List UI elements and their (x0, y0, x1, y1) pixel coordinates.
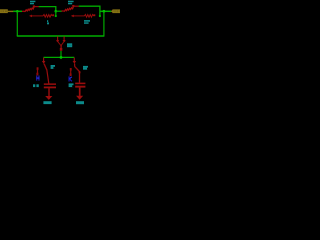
label R2 (teal text above) (68, 1, 74, 5)
node B junction (55, 10, 58, 13)
diode D1 (arrow down, left branch) (42, 58, 47, 70)
label C1 (teal text) (33, 84, 39, 87)
wire: long bottom rail (17, 35, 105, 37)
ground label (teal text) left (43, 101, 51, 104)
polarity marker (blue glyph) right (69, 76, 72, 81)
wire: node B stub right to R2 (56, 10, 62, 12)
capacitor C1 (plates) (44, 83, 56, 88)
resistor R2 (diagonal zigzag) (62, 5, 80, 11)
ground (arrow down) left (45, 96, 52, 100)
wire: R2 to node C (79, 6, 101, 17)
wire: node C down to bottom rail (103, 11, 105, 36)
label Q1 (teal text) (67, 43, 72, 47)
wire: Q1 down to node D (60, 51, 62, 57)
port VIN (left olive input port) (0, 9, 14, 13)
wire segment: D2 to C2 (red lead) (79, 71, 81, 83)
resistor R3 (horizontal, arrow at left) (29, 14, 54, 17)
wire: node B stub down to R3 (55, 11, 57, 17)
wire: node A down to bottom rail (16, 11, 18, 36)
port VOUT (right olive output port) (111, 9, 120, 13)
node A junction (16, 10, 19, 13)
wire: middle horizontal net (44, 56, 75, 58)
transistor Q1 (pins from rail converging down) (56, 36, 66, 50)
label C2 (teal text) (69, 83, 74, 87)
diode D2 (arrow down, right branch) (73, 58, 80, 72)
resistor R1 (diagonal zigzag) (22, 5, 39, 11)
value label (rotated red marks) right (70, 68, 72, 76)
wire: R1 to node B (39, 7, 56, 12)
capacitor C2 (plates) (75, 83, 85, 88)
wire: node C to right port (100, 10, 112, 12)
wire segment: C1 down lead (48, 88, 50, 96)
ground label (teal text) right (76, 101, 84, 104)
polarity marker (blue glyph) left (36, 76, 39, 81)
node D junction (60, 56, 63, 59)
ground (arrow down) right (76, 96, 83, 100)
label R1 (teal text above) (30, 1, 35, 5)
label R4 (teal text) (84, 20, 90, 24)
label D1 (teal text) (51, 65, 55, 69)
wire segment: C2 down lead (79, 88, 81, 96)
wire: left port to node A (13, 10, 22, 12)
value label (rotated red marks) left (36, 67, 38, 75)
label R3 (teal text) (47, 20, 49, 24)
label D2 (teal text) (83, 66, 88, 70)
resistor R4 (horizontal, arrow at left) (71, 14, 96, 17)
wire segment: D1 to C1 (red lead) (47, 70, 49, 84)
node C junction (103, 10, 106, 13)
